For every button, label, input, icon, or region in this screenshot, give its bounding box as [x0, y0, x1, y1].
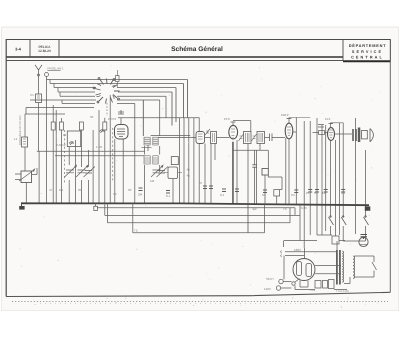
svg-text:EL3: EL3 [325, 117, 331, 121]
svg-text:C1: C1 [30, 93, 34, 97]
svg-text:T.110-130V: T.110-130V [336, 290, 349, 293]
svg-text:4.A012: 4.A012 [56, 143, 66, 147]
svg-text:50: 50 [262, 193, 266, 197]
svg-text:4µF: 4µF [252, 207, 257, 211]
svg-text:50: 50 [314, 191, 318, 195]
svg-text:CENTRAL: CENTRAL [351, 56, 384, 60]
svg-text:47: 47 [199, 181, 203, 185]
svg-text:6,3V: 6,3V [301, 206, 307, 210]
svg-text:12.BL20: 12.BL20 [38, 49, 51, 53]
svg-text:EBF2: EBF2 [281, 113, 289, 117]
svg-text:2M: 2M [138, 193, 143, 197]
svg-text:110V: 110V [264, 287, 271, 291]
svg-text:1M: 1M [150, 179, 155, 183]
svg-text:47: 47 [49, 188, 53, 192]
svg-text:4µ: 4µ [187, 168, 191, 172]
svg-text:50: 50 [128, 188, 132, 192]
svg-text:0,1: 0,1 [341, 191, 346, 195]
svg-text:0,5: 0,5 [291, 193, 296, 197]
svg-text:12: 12 [63, 133, 67, 137]
svg-text:BOBINAGE OC PO GO: BOBINAGE OC PO GO [18, 115, 22, 145]
svg-text:4µ: 4µ [187, 174, 191, 178]
svg-text:1883: 1883 [294, 248, 301, 252]
svg-text:TE: TE [134, 229, 138, 233]
svg-text:TE: TE [113, 192, 117, 196]
svg-text:0,1: 0,1 [166, 194, 171, 198]
svg-text:SECT: SECT [266, 277, 274, 281]
svg-text:PRISE ANT.: PRISE ANT. [48, 67, 64, 71]
svg-text:TE: TE [283, 207, 287, 211]
svg-text:25: 25 [306, 191, 310, 195]
svg-text:FUS: FUS [310, 289, 315, 292]
svg-text:SERVICE: SERVICE [352, 50, 383, 54]
svg-text:3-4: 3-4 [15, 47, 22, 52]
svg-text:DÉPARTEMENT: DÉPARTEMENT [349, 43, 387, 48]
svg-text:50: 50 [90, 115, 94, 119]
svg-text:0,1: 0,1 [220, 193, 225, 197]
svg-text:Schéma Général: Schéma Général [171, 46, 223, 53]
svg-text:0,1: 0,1 [59, 188, 64, 192]
svg-text:EF9: EF9 [224, 117, 230, 121]
svg-text:1.R5: 1.R5 [96, 145, 103, 149]
svg-text:1M: 1M [322, 191, 327, 195]
svg-text:25: 25 [78, 188, 82, 192]
svg-text:ECH3: ECH3 [108, 117, 116, 121]
